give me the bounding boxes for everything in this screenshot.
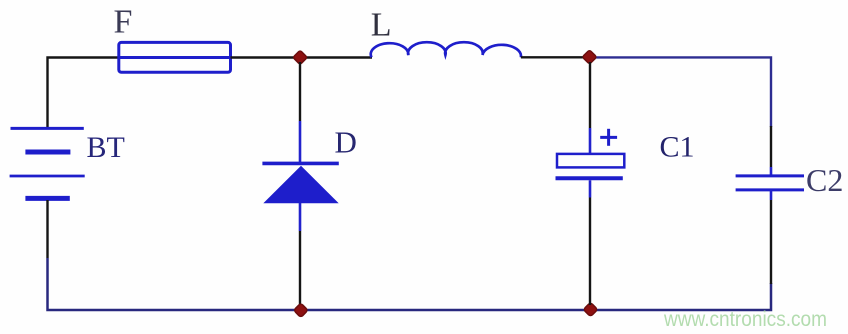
node D (bottom junction) xyxy=(583,302,597,316)
wire node A down to diode (black then blue stub) xyxy=(299,62,301,163)
battery BT xyxy=(10,128,85,198)
svg-text:F: F xyxy=(114,3,133,40)
node C (bottom junction) xyxy=(294,303,308,317)
wire diode to bottom node (blue stub then black) xyxy=(299,203,302,306)
plus sign of C1 xyxy=(600,129,617,146)
node B (top junction) xyxy=(582,50,596,64)
capacitor C2 xyxy=(736,176,804,190)
wire fuse to node A xyxy=(231,56,297,58)
wire node B to top-right corner (blue) xyxy=(594,57,771,127)
wire C1 down to bottom node xyxy=(589,180,592,305)
bottom wire node D to bottom-right corner xyxy=(594,283,771,310)
wire battery+ to fuse (top-left corner) xyxy=(48,58,120,130)
svg-text:D: D xyxy=(335,124,357,159)
diode D xyxy=(262,163,338,203)
wire battery- down (black then navy) to bottom-left corner xyxy=(48,200,297,310)
inductor L xyxy=(371,42,521,57)
wire C2 down to bottom-right corner xyxy=(770,190,773,284)
fuse F xyxy=(119,42,231,72)
svg-text:L: L xyxy=(371,6,392,43)
svg-text:C2: C2 xyxy=(806,162,843,198)
svg-text:C1: C1 xyxy=(660,130,695,163)
node A (top junction) xyxy=(293,50,307,64)
svg-text:www.cntronics.com: www.cntronics.com xyxy=(663,308,827,331)
capacitor C1 (polarized) xyxy=(556,154,625,178)
wire inductor to node B xyxy=(521,56,585,58)
wire node A to inductor xyxy=(304,56,372,58)
svg-text:BT: BT xyxy=(87,131,125,164)
bottom wire between bottom nodes xyxy=(304,309,586,312)
wire node B down to C1 xyxy=(589,62,591,154)
wire right side down to C2 (blue/black/blue) xyxy=(770,126,772,176)
